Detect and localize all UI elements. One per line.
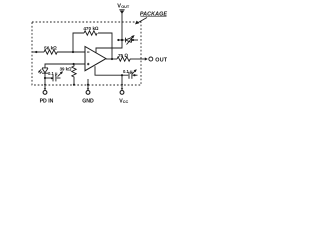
svg-text:PD IN: PD IN [40, 98, 54, 104]
node PD junction [44, 77, 46, 79]
svg-text:0.1 µ: 0.1 µ [48, 71, 58, 76]
node inverting input junction [72, 51, 74, 53]
photodiode D1 [42, 68, 48, 73]
node R3 bottom junction [73, 84, 75, 86]
svg-text:0.1 µ: 0.1 µ [123, 69, 133, 74]
leader arrow to package [137, 18, 148, 24]
node rail left dot [117, 39, 119, 41]
node VOUT junction dot [121, 39, 123, 41]
resistor R4 75 Ohm (output) [117, 57, 130, 61]
wire op-amp bottom supply rail [95, 66, 128, 75]
wire top-right node rail [118, 39, 125, 41]
svg-text:75 Ω: 75 Ω [118, 53, 129, 58]
VOUT terminal symbol [119, 9, 124, 11]
wire diode to PD node [44, 73, 46, 78]
wire op-amp top supply to VOUT node [96, 40, 122, 53]
wire non-inverting input line [45, 64, 85, 68]
svg-text:39 kΩ: 39 kΩ [60, 67, 73, 72]
label PACKAGE [140, 11, 168, 17]
terminal OUT [149, 57, 153, 61]
resistor R2 470 kOhm (feedback) [84, 31, 97, 35]
svg-text:OUT: OUT [121, 5, 130, 9]
wire VOUT pin vertical [121, 13, 123, 40]
wire output to OUT terminal [130, 58, 145, 60]
package dashed boundary [32, 22, 141, 85]
svg-text:OUT: OUT [155, 57, 167, 63]
node non-inv junction (to R3) [73, 63, 75, 65]
wire PD IN pin vertical [44, 78, 46, 89]
capacitor C2 0.1 uF [128, 72, 130, 79]
node input pin dot [35, 51, 37, 53]
capacitor C1 0.1 uF [45, 77, 52, 79]
terminal PD IN [44, 88, 46, 90]
wire ground rail to GND pin [87, 79, 89, 90]
resistor R3 39 kOhm (vertical) [72, 64, 76, 85]
svg-text:56 kΩ: 56 kΩ [44, 46, 57, 51]
op-amp U1 [85, 47, 106, 71]
resistor R1 56 kOhm (input) [44, 50, 57, 54]
wire op-amp output [106, 58, 117, 60]
diode D2 (clamp at VOUT node) [126, 38, 132, 43]
node C2 right dot [133, 74, 135, 76]
svg-text:470 kΩ: 470 kΩ [83, 26, 99, 31]
node VOUT label [117, 3, 130, 9]
node Vcc junction [121, 74, 123, 76]
node diode right dot [132, 39, 134, 41]
svg-text:CC: CC [123, 100, 129, 104]
node feedback/output junction [111, 58, 113, 60]
wire Vcc pin vertical [121, 75, 123, 89]
terminal GND [87, 88, 89, 90]
wire feedback loop [73, 33, 84, 52]
svg-text:GND: GND [82, 98, 94, 104]
wire RF input line (left pin to op-amp inverting input) [32, 51, 44, 53]
terminal Vcc [121, 88, 123, 90]
